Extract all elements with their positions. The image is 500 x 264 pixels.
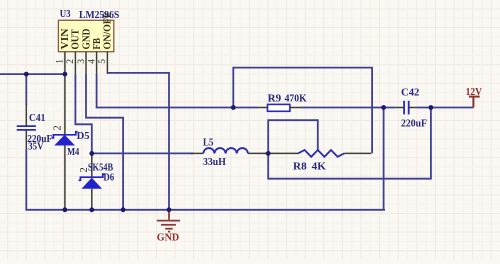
pin 5 stub	[106, 52, 108, 74]
svg-text:2: 2	[53, 125, 64, 130]
resistor R9	[258, 104, 302, 111]
diode D5	[52, 75, 78, 210]
wire pin4 FB main horizontal left	[97, 74, 258, 108]
svg-text:C42: C42	[401, 88, 419, 99]
svg-text:4: 4	[87, 59, 97, 64]
svg-text:M4: M4	[67, 147, 79, 158]
wire 12V horizontal right	[417, 107, 473, 109]
capacitor C41	[17, 105, 36, 150]
junction dot L5/R8 node	[266, 151, 271, 156]
wire pin2 jog to D6 node	[75, 74, 91, 154]
svg-text:4K: 4K	[312, 162, 326, 173]
inductor L5	[191, 148, 267, 153]
svg-text:5: 5	[98, 59, 108, 64]
svg-text:D5: D5	[77, 131, 90, 142]
pin 3 stub	[85, 52, 87, 74]
svg-text:220uF: 220uF	[401, 118, 427, 129]
junction dot rail pin3	[121, 207, 126, 212]
wire lower link OUT to 12V node	[268, 108, 431, 179]
junction dot pin1/D5	[63, 72, 68, 77]
wire FB horizontal middle	[301, 107, 396, 109]
svg-text:GND: GND	[81, 28, 92, 49]
svg-text:ON/OFF: ON/OFF	[103, 12, 114, 50]
pin 2 stub	[74, 52, 76, 74]
svg-text:U3: U3	[60, 9, 71, 20]
power port 12V	[469, 97, 480, 108]
svg-text:33uH: 33uH	[203, 157, 226, 168]
svg-text:1: 1	[56, 59, 66, 64]
wire upper loop to R8 tap	[268, 120, 318, 153]
svg-text:35V: 35V	[28, 141, 44, 152]
pin 1 stub	[64, 52, 66, 74]
junction dot C42 left	[381, 105, 386, 110]
wire pin5 to GND	[107, 73, 169, 210]
wire C41 branch lower + ground rail	[26, 149, 385, 210]
wire pin3 to ground rail	[86, 74, 123, 210]
op chip U3 body	[58, 20, 113, 51]
svg-text:2: 2	[66, 59, 76, 64]
junction dot rail D5	[63, 207, 68, 212]
pin 4 stub	[96, 52, 98, 74]
svg-text:C41: C41	[29, 113, 45, 124]
wire L5 to node	[265, 152, 268, 154]
junction dot C42 right	[429, 105, 434, 110]
junction dot D6 node	[89, 151, 94, 156]
svg-text:R8: R8	[293, 162, 307, 173]
diode D6	[79, 154, 105, 210]
resistor R8	[268, 150, 371, 157]
svg-text:R9: R9	[268, 94, 282, 105]
svg-text:12V: 12V	[466, 87, 483, 98]
svg-text:470K: 470K	[285, 94, 307, 105]
junction dot rail GND	[167, 207, 172, 212]
junction dot C41 branch	[24, 72, 29, 77]
wire VIN rail left	[0, 73, 65, 75]
junction dot rail D6	[89, 207, 94, 212]
svg-text:L5: L5	[203, 137, 213, 148]
svg-text:3: 3	[77, 59, 87, 64]
wire C41 branch upper	[25, 74, 27, 105]
svg-text:D6: D6	[103, 173, 114, 184]
junction dot FB node	[231, 105, 236, 110]
svg-text:FB: FB	[92, 38, 103, 50]
svg-text:OUT: OUT	[71, 29, 82, 50]
ground symbol	[157, 210, 180, 232]
wire top link R9 bypass	[233, 68, 372, 154]
capacitor C42	[396, 101, 417, 115]
wire OUT node to L5	[92, 152, 194, 154]
svg-text:GND: GND	[157, 232, 179, 243]
wire C42 ground drop	[383, 108, 385, 210]
svg-text:VIN: VIN	[60, 28, 71, 49]
